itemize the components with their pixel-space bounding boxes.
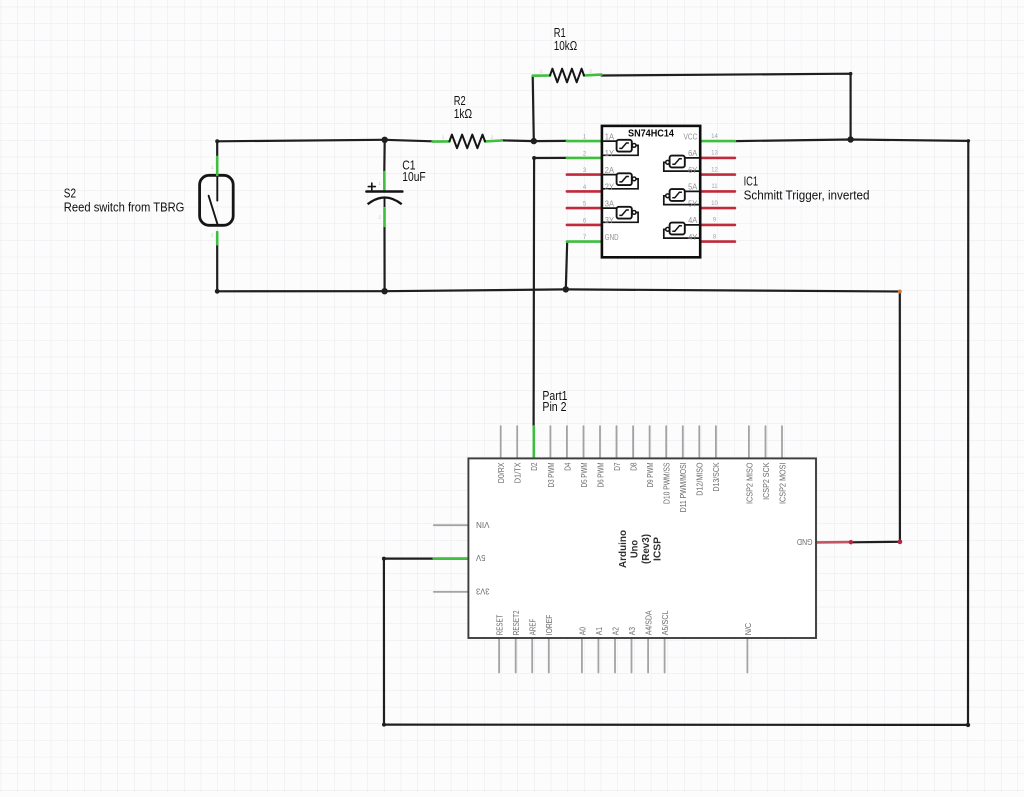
wire right vertical VCC to bottom <box>967 141 969 725</box>
svg-text:GND: GND <box>605 232 619 242</box>
svg-text:VIN: VIN <box>476 520 490 530</box>
svg-text:RESET: RESET <box>495 614 505 635</box>
svg-text:2: 2 <box>491 134 494 139</box>
svg-text:D12/MISO: D12/MISO <box>695 462 705 495</box>
svg-text:1A: 1A <box>605 131 614 141</box>
svg-text:Schmitt Trigger, inverted: Schmitt Trigger, inverted <box>744 188 870 202</box>
svg-text:10uF: 10uF <box>402 170 426 184</box>
junction node top rail C1 <box>382 137 388 143</box>
IC U1 schmitt gate 6 <box>664 156 700 172</box>
Arduino Part1 GND lead right <box>816 541 851 544</box>
Arduino Part1 body <box>468 458 816 638</box>
svg-text:2: 2 <box>589 69 592 74</box>
wire 1Y to Arduino D2 <box>534 158 567 427</box>
junction node ground rail IC GND <box>563 286 569 292</box>
junction node R2-R1-1A <box>531 138 537 144</box>
IC U1 schmitt gate 5 <box>664 189 700 205</box>
svg-text:12: 12 <box>711 167 718 173</box>
bend VCC right <box>967 139 971 143</box>
svg-text:6Y: 6Y <box>688 165 697 175</box>
bend 5V corner <box>382 557 386 561</box>
switch S2 <box>200 157 234 244</box>
wire R1 pin1 drop <box>533 76 534 142</box>
IC U1 SN74HC14 pin leads <box>567 141 735 242</box>
svg-text:11: 11 <box>711 184 718 190</box>
junction node ground rail C1 <box>381 288 387 294</box>
svg-text:A0: A0 <box>577 627 587 635</box>
wire IC GND drop <box>566 242 567 290</box>
svg-text:A1: A1 <box>594 627 604 635</box>
svg-text:Uno: Uno <box>630 540 641 558</box>
svg-text:A3: A3 <box>627 627 637 635</box>
IC U1 pin numbers <box>583 134 719 241</box>
wire R2 to IC 1A <box>502 139 567 142</box>
svg-text:2A: 2A <box>605 165 614 175</box>
bend ground rail right (orange) <box>898 290 902 294</box>
wire ground rail down <box>899 292 901 542</box>
IC U1 schmitt gate 4 <box>664 223 700 239</box>
svg-text:D1/TX: D1/TX <box>513 462 523 483</box>
Arduino Part1 pin leads bottom <box>499 638 747 673</box>
svg-text:1: 1 <box>211 165 214 170</box>
resistor R1 <box>533 69 602 83</box>
svg-text:3A: 3A <box>605 198 614 208</box>
svg-text:(Rev3): (Rev3) <box>641 534 652 564</box>
wire node to R2 <box>385 140 433 142</box>
wire 5V down-left <box>384 559 468 725</box>
svg-text:10kΩ: 10kΩ <box>554 39 578 53</box>
svg-text:R2: R2 <box>454 94 466 108</box>
svg-text:1: 1 <box>540 69 543 74</box>
svg-text:A5/SCL: A5/SCL <box>660 610 670 635</box>
svg-text:VCC: VCC <box>684 131 698 141</box>
wire node to C1 <box>383 140 386 173</box>
junction node R1-VCC <box>847 136 853 142</box>
resistor R2 <box>433 134 502 148</box>
svg-text:D4: D4 <box>562 462 572 470</box>
svg-text:D13/SCK: D13/SCK <box>711 462 721 491</box>
svg-text:4A: 4A <box>688 215 697 225</box>
svg-text:2: 2 <box>211 233 214 238</box>
junction GND wire corner (crimson) <box>898 539 903 544</box>
bend GND wire mid (crimson) <box>849 540 853 544</box>
svg-text:IC1: IC1 <box>744 175 759 189</box>
svg-text:4Y: 4Y <box>688 232 697 242</box>
svg-text:ICSP: ICSP <box>653 537 664 561</box>
svg-text:D8: D8 <box>629 462 639 470</box>
svg-text:3Y: 3Y <box>605 215 614 225</box>
svg-text:GND: GND <box>797 537 813 547</box>
svg-text:ICSP2 SCK: ICSP2 SCK <box>761 462 771 500</box>
svg-text:3V3: 3V3 <box>476 587 490 597</box>
label IC1 <box>744 175 870 203</box>
Arduino Part1 pin leads left <box>434 525 469 592</box>
wire ground rail <box>217 289 900 291</box>
svg-text:1: 1 <box>442 134 445 139</box>
wire R1 pin2 to VCC rail <box>601 74 850 140</box>
svg-text:ICSP2 MISO: ICSP2 MISO <box>744 462 754 504</box>
svg-text:N/C: N/C <box>743 623 753 635</box>
svg-text:5Y: 5Y <box>688 198 697 208</box>
svg-text:D11 PWM/MOSI: D11 PWM/MOSI <box>678 463 688 513</box>
wire C1 bottom to rail <box>383 226 385 291</box>
bend bottom left <box>382 723 386 727</box>
svg-text:S2: S2 <box>64 187 76 201</box>
svg-text:1kΩ: 1kΩ <box>454 107 472 121</box>
svg-text:D9 PWM: D9 PWM <box>645 463 655 488</box>
svg-text:14: 14 <box>711 134 718 140</box>
bend bottom right <box>966 723 970 727</box>
label R2 <box>454 94 472 121</box>
svg-text:A4/SDA: A4/SDA <box>644 610 654 635</box>
svg-text:10: 10 <box>711 201 718 207</box>
svg-text:SN74HC14: SN74HC14 <box>628 129 674 140</box>
wire bottom run <box>384 723 968 726</box>
capacitor C1 <box>367 172 403 226</box>
svg-text:A2: A2 <box>610 627 620 635</box>
Arduino Part1 pin leads top <box>501 426 782 459</box>
svg-text:D0/RX: D0/RX <box>496 462 506 483</box>
svg-text:Pin 2: Pin 2 <box>542 400 566 414</box>
wire switch-bottom to rail <box>216 244 218 291</box>
svg-text:5A: 5A <box>688 182 697 192</box>
svg-text:R1: R1 <box>554 26 566 40</box>
svg-text:AREF: AREF <box>528 619 538 636</box>
svg-text:1: 1 <box>378 181 381 186</box>
svg-text:2: 2 <box>378 214 381 219</box>
label C1 <box>402 159 426 185</box>
IC U1 schmitt gate 2 <box>602 173 638 189</box>
wire VCC rail <box>735 140 968 142</box>
bend R1 top right <box>849 72 853 76</box>
svg-text:5V: 5V <box>476 553 486 563</box>
svg-text:D7: D7 <box>612 462 622 470</box>
svg-text:6A: 6A <box>688 148 697 158</box>
bend 1Y corner <box>532 156 536 160</box>
svg-text:D6 PWM: D6 PWM <box>595 463 605 488</box>
wire switch-top to node <box>217 140 385 157</box>
svg-text:ICSP2 MOSI: ICSP2 MOSI <box>777 463 787 505</box>
svg-text:D10 PWM/SS: D10 PWM/SS <box>662 462 672 504</box>
svg-text:RESET2: RESET2 <box>511 610 521 635</box>
svg-text:Arduino: Arduino <box>618 530 629 568</box>
IC U1 pin names <box>605 131 698 242</box>
svg-text:13: 13 <box>711 151 718 157</box>
svg-text:IOREF: IOREF <box>544 615 554 636</box>
svg-text:D5 PWM: D5 PWM <box>579 463 589 488</box>
svg-text:D2: D2 <box>529 462 539 470</box>
bend switch bottom corner <box>215 289 220 294</box>
svg-text:2Y: 2Y <box>605 182 614 192</box>
wire Arduino GND across <box>851 541 900 544</box>
IC U1 schmitt gate 1 <box>602 140 638 156</box>
label Part1 Pin 2 <box>542 389 567 414</box>
label R1 <box>554 26 578 53</box>
IC U1 SN74HC14 body <box>602 126 700 257</box>
svg-text:Reed switch from TBRG: Reed switch from TBRG <box>64 200 185 214</box>
svg-text:D3 PWM: D3 PWM <box>546 463 556 488</box>
label S2 <box>64 187 185 215</box>
svg-text:1Y: 1Y <box>605 148 614 158</box>
bend switch top corner <box>215 139 219 143</box>
IC U1 schmitt gate 3 <box>602 207 638 223</box>
